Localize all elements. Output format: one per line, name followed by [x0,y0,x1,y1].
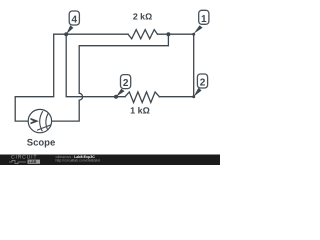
svg-text:2: 2 [123,78,129,89]
oscilloscope chevron [31,118,39,124]
wire: scope positive lead with hop over bottom rail [52,34,169,121]
wire: bottom rail right segment [159,96,193,98]
oscilloscope screen arc 1 [40,111,43,131]
junction dot node 2 left [114,95,118,99]
svg-text:2: 2 [200,78,206,89]
oscilloscope beam line [37,125,51,130]
footer bar [0,155,220,166]
junction dot node 1 tap [166,32,170,36]
svg-text:LAB: LAB [29,160,37,164]
svg-text:1: 1 [201,14,207,25]
junction dot node 4 [64,32,68,36]
oscilloscope U1 body [28,109,51,132]
node flag 4 [66,11,79,34]
svg-text:Scope: Scope [27,137,56,148]
svg-text:4: 4 [72,14,78,25]
svg-text:http://circuitlab.com/c66b5kd: http://circuitlab.com/c66b5kd [56,158,100,162]
wire: top rail left segment (net 4) [54,33,128,35]
node flag 2 right [194,74,208,97]
svg-text:1 kΩ: 1 kΩ [130,105,150,115]
resistor R2 1 kOhm [125,92,159,103]
junction dot node 1 corner [192,33,195,36]
svg-text:2 kΩ: 2 kΩ [133,11,152,21]
node flag 2 left [116,75,131,97]
node flag 1 [194,10,209,34]
footer logo LAB [28,160,41,164]
wire: right column node1 to node2 [193,34,195,96]
wire: node 4 branch down to bottom rail [66,34,125,96]
junction dot node 2 right corner [192,95,195,98]
oscilloscope screen arc 2 [46,113,49,130]
wire: left loop from top rail down to scope negative [15,34,54,121]
wire: top rail right segment (net 1) [158,33,194,35]
footer logo squarewave [9,160,26,163]
resistor R1 2 kOhm [128,30,158,39]
